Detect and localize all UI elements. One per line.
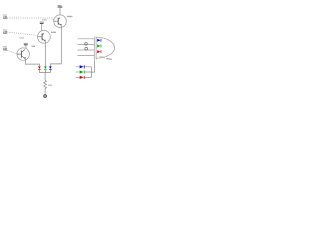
LED red (of RGB LED LED2): [38, 66, 41, 69]
LED blue inside LED1: [97, 39, 101, 42]
LED green inside LED1: [97, 45, 101, 48]
label Q2: [51, 32, 56, 33]
wire Q2 collector to power: [41, 24, 43, 31]
wire resistor to ground: [44, 88, 46, 94]
RGB LED LED1 pin 1 leg: [78, 38, 95, 40]
pin loop on leg 3: [85, 47, 88, 50]
LED red inside LED1: [97, 50, 101, 53]
label Q3: [32, 46, 35, 47]
LED blue (right group): [80, 65, 85, 68]
port P2 label text: [3, 29, 7, 32]
wire common cathode bracket of right group: [85, 60, 95, 77]
wire Q1 emitter to blue LED anode: [50, 26, 61, 67]
RGB LED LED1 pin 4 leg: [78, 55, 95, 57]
wire stub left of red LED (right group): [76, 76, 80, 78]
wire Q1 collector to power: [59, 7, 61, 17]
wire Q3 emitter to red LED anode: [25, 59, 39, 66]
wire stub left of blue LED (LED3 group): [76, 66, 80, 68]
RGB LED LED1 pin 3 leg: [78, 49, 95, 51]
transistor Q1: [54, 15, 67, 28]
wire bus to resistor R1: [44, 73, 46, 81]
port P2: [3, 31, 7, 33]
wire ratsnest from P2 to Q2 base: [7, 32, 37, 37]
ground: [43, 95, 47, 98]
label Q1: [67, 16, 73, 17]
label R1 value: [48, 85, 52, 86]
label net name on ratsnest to Q2: [20, 37, 25, 38]
port P1 label text: [3, 14, 7, 17]
power flag text above Q3: [24, 43, 28, 44]
power flag text above Q1: [57, 5, 61, 6]
LED red (right group): [80, 76, 85, 79]
wire Q2 emitter to green LED anode: [44, 41, 46, 66]
pin loop on leg 2: [85, 43, 88, 46]
wire ratsnest from P3 to Q3 base: [7, 50, 17, 54]
port P1: [3, 16, 7, 18]
power flag above Q3: [24, 44, 28, 46]
wire ratsnest from P1 to Q1 base: [7, 18, 53, 21]
LED green (of RGB LED LED2): [44, 66, 47, 69]
RGB LED LED1 body: [94, 37, 114, 60]
label RGB LED (italic): [99, 56, 112, 60]
transistor Q3: [17, 48, 29, 60]
transistor Q2: [38, 30, 51, 43]
power flag above Q2: [40, 22, 44, 24]
wire LED cathodes to common bus: [39, 70, 50, 73]
RGB LED LED1 pin 2 leg: [78, 43, 95, 45]
power flag text above Q2: [40, 22, 44, 23]
resistor R1: [44, 80, 47, 88]
wire stub left of green LED (LED3 group): [76, 71, 80, 73]
LED blue (of RGB LED LED2): [49, 66, 52, 69]
power flag above Q1: [58, 6, 63, 8]
port P3 label text: [3, 45, 7, 48]
wire Q3 collector to power: [25, 45, 27, 49]
port P3: [3, 48, 7, 50]
LED green (right group): [80, 70, 85, 73]
label net name on ratsnest to Q1: [42, 19, 47, 20]
